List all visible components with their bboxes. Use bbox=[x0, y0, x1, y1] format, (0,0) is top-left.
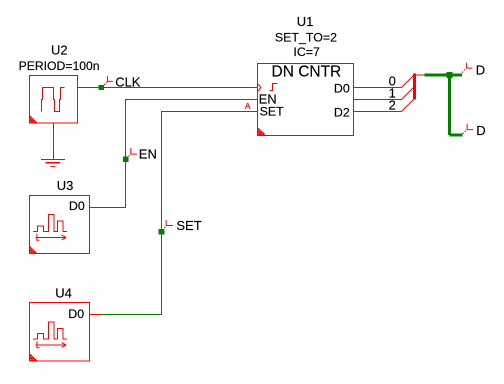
D flag marker bottom bbox=[463, 124, 474, 134]
U1 clock pin chevron bbox=[258, 84, 261, 91]
U1 clock edge glyph bbox=[269, 84, 277, 91]
counter U1 box bbox=[258, 64, 354, 136]
U3 D0 pin stub bbox=[90, 207, 102, 209]
svg-text:A: A bbox=[245, 101, 251, 111]
svg-text:D0: D0 bbox=[68, 307, 84, 321]
U3 stimulus waveform glyph bbox=[33, 215, 67, 232]
SET flag marker bbox=[164, 220, 173, 228]
svg-text:D2: D2 bbox=[334, 105, 350, 119]
bus wire vertical bbox=[448, 75, 451, 135]
bus entry 1 bbox=[402, 88, 414, 100]
ground pin stub bbox=[53, 147, 55, 159]
svg-text:D: D bbox=[476, 123, 485, 138]
svg-text:SET: SET bbox=[260, 104, 285, 118]
EN flag marker bbox=[129, 148, 137, 157]
svg-text:DN CNTR: DN CNTR bbox=[272, 63, 342, 80]
D flag marker top bbox=[462, 63, 473, 73]
U1 folded-corner marker bbox=[258, 128, 265, 135]
U4 folded-corner marker bbox=[30, 354, 37, 361]
U1 D1 pin stub bbox=[354, 99, 366, 101]
U2 clock waveform glyph bbox=[42, 88, 65, 112]
stimulus U3 box bbox=[30, 196, 90, 254]
U3 time axis arrow bbox=[36, 234, 66, 241]
U1 EN pin stub bbox=[246, 99, 258, 101]
stimulus U4 box bbox=[30, 303, 90, 362]
svg-text:SET: SET bbox=[176, 218, 201, 233]
wire U2 to ground bbox=[53, 135, 55, 147]
bus red riser bbox=[413, 74, 416, 100]
bus wire top bbox=[425, 73, 462, 76]
wire EN (U3 D0 up to U1 EN) bbox=[101, 100, 246, 208]
U1 D0 pin stub bbox=[354, 87, 366, 89]
junction on CLK wire bbox=[99, 85, 105, 90]
svg-text:U2: U2 bbox=[51, 42, 68, 57]
bus entry 0 bbox=[402, 76, 414, 88]
wire CLK (U2 out to U1 CLK) bbox=[90, 87, 247, 89]
svg-text:D0: D0 bbox=[334, 81, 350, 95]
svg-text:IC=7: IC=7 bbox=[293, 45, 320, 59]
U1 D2 pin stub bbox=[354, 111, 366, 113]
U3 folded-corner marker bbox=[30, 246, 37, 253]
U4 D0 pin stub bbox=[90, 314, 102, 316]
svg-text:U3: U3 bbox=[57, 178, 74, 193]
CLK flag marker bbox=[104, 76, 113, 85]
svg-text:2: 2 bbox=[389, 98, 396, 113]
U1 CLK pin stub bbox=[246, 87, 258, 89]
bus red stub bbox=[416, 74, 425, 76]
bus wire bottom bbox=[450, 133, 463, 136]
bus entry 2 bbox=[402, 100, 414, 112]
svg-text:U1: U1 bbox=[297, 14, 314, 29]
junction on EN wire bbox=[123, 157, 129, 162]
wire bit2 bbox=[365, 111, 402, 113]
U4 time axis arrow bbox=[36, 341, 66, 348]
svg-text:U4: U4 bbox=[55, 285, 72, 300]
U2 output pin stub bbox=[78, 87, 90, 89]
ground symbol bbox=[41, 160, 65, 167]
wire bit1 bbox=[365, 99, 402, 101]
clock source U2 box bbox=[30, 76, 78, 124]
U2 bottom pin stub bbox=[53, 123, 55, 135]
svg-text:PERIOD=100n: PERIOD=100n bbox=[19, 59, 100, 73]
bus junction bbox=[447, 72, 453, 78]
wire bit0 bbox=[365, 87, 402, 89]
U1 SET pin stub bbox=[246, 111, 258, 113]
wire SET (U4 D0 up to U1 SET) bbox=[101, 112, 246, 315]
junction on SET wire bbox=[159, 229, 165, 234]
U4 stimulus waveform glyph bbox=[33, 322, 67, 339]
svg-text:EN: EN bbox=[139, 146, 157, 161]
svg-text:CLK: CLK bbox=[115, 74, 141, 89]
svg-text:SET_TO=2: SET_TO=2 bbox=[275, 31, 337, 45]
U2 folded-corner marker bbox=[30, 116, 37, 123]
svg-text:D: D bbox=[476, 62, 485, 77]
svg-text:D0: D0 bbox=[69, 199, 85, 213]
